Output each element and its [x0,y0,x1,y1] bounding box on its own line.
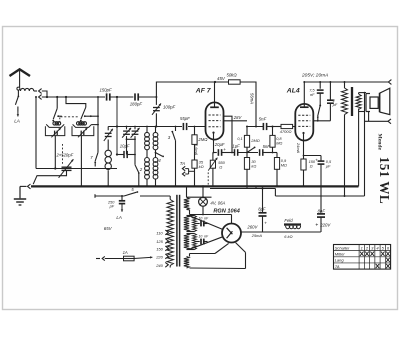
wire plate supply [304,81,388,83]
svg-text:8µF: 8µF [258,206,266,211]
switch S2 [135,165,140,188]
tap 220 [155,254,168,259]
gang coupling dashes [60,117,79,124]
label 35kΩ [199,160,204,170]
grid dashes AL4 [298,115,310,126]
svg-text:TA: TA [180,161,185,166]
label 10nF lower [198,234,209,238]
svg-text:pF: pF [109,204,115,208]
svg-text:150: 150 [156,246,163,251]
svg-text:MΩ: MΩ [276,140,282,145]
svg-text:240: 240 [155,263,163,268]
svg-text:AF 7: AF 7 [195,88,212,95]
svg-text:100pF: 100pF [163,104,176,109]
wire rect heater bottom [190,243,246,269]
wire left riser [35,96,37,169]
tap 240 [155,262,168,267]
svg-text:260V: 260V [246,225,258,230]
resistor 2MΩ [192,127,197,145]
label 20µF [214,142,225,147]
svg-text:1µF: 1µF [232,143,240,148]
svg-text:180pF: 180pF [130,102,143,107]
switch S5 mains [124,191,138,196]
coil pan left [45,122,64,136]
screen wire AL4 [313,81,330,122]
capacitor 10nF upper [195,221,208,227]
capacitor 250pF [119,196,125,212]
label 45V [217,76,226,81]
plug connector speaker [388,119,391,124]
label 30kΩ [251,159,256,169]
resistor 0,1MΩ [244,126,249,153]
wire [146,179,148,187]
wire switch bracket [65,96,86,107]
capacitor 7,5nF [317,82,324,106]
label 5nF b [263,144,271,149]
label 100pF [163,104,176,109]
mains transformer core [177,195,180,267]
label 56mA [250,93,255,104]
label 50kΩ [227,73,238,78]
label 2x520pF [56,153,74,158]
switch table [334,245,391,270]
svg-text:2MΩ: 2MΩ [197,137,208,142]
wire [146,150,148,158]
wire tuning line [36,168,117,170]
svg-text:kΩ: kΩ [199,164,204,169]
svg-text:+: + [264,222,267,227]
label 150pF [100,87,113,92]
coil antenna [105,150,111,169]
output transformer primary [342,82,348,115]
gang dashes pans [62,144,64,165]
wire [155,150,157,158]
resistor 50kΩ [229,80,241,84]
wire [138,96,157,98]
label 1µF [232,143,240,148]
coil grid 2a [153,132,158,149]
output transformer secondary [356,94,361,110]
switch S7 [94,152,98,166]
label 180pF [130,102,143,107]
svg-text:MΩ: MΩ [281,162,287,167]
cathode AL4 [302,132,304,156]
wire trimmer tie [127,139,136,165]
label 150Ω [309,159,316,169]
mains primary [167,196,173,268]
svg-text:6,6mA: 6,6mA [194,144,199,156]
wire ground stub [20,185,27,187]
svg-text:kΩ: kΩ [251,163,256,168]
field coil Feld [284,223,301,232]
wire top bus [42,91,105,98]
wire contact bus [92,96,99,152]
antenna [10,69,31,90]
svg-text:2: 2 [139,167,143,172]
capacitor 8µF b 220V [317,214,325,232]
resistor 35kΩ [192,160,197,188]
wire [155,127,157,133]
label 205V 20mA [301,73,328,79]
wire riser x117 [116,97,118,156]
svg-text:6 kΩ: 6 kΩ [284,234,292,239]
wire [238,152,258,154]
wire [222,152,235,154]
resistor 4700Ω [281,124,293,128]
label 28V [233,115,243,120]
svg-text:220: 220 [155,254,163,259]
label 7 [90,155,93,160]
label 5nF a [259,117,267,122]
wire switch3 column [174,127,176,188]
wire [146,127,148,133]
label 25mA [251,233,263,238]
trimmer b [131,127,140,141]
wire [263,152,277,154]
hum pot upper [187,216,197,232]
hum pot lower [187,234,197,250]
svg-text:4V, 06A: 4V, 06A [210,201,225,206]
wire anode rect lower [189,237,223,250]
svg-text:65V: 65V [104,226,113,231]
label 10µF [120,144,130,149]
wire lamp rail [190,210,232,215]
trimmer antenna [104,129,113,141]
label AF 7 [195,88,212,95]
label 550Ω [218,160,225,170]
winding 4V rect [184,186,212,209]
svg-text:45V: 45V [217,76,226,81]
label 4 [158,158,161,163]
chassis bus [31,185,359,187]
svg-text:AL4: AL4 [286,87,300,94]
svg-text:0,1: 0,1 [237,137,242,141]
svg-text:µF: µF [333,102,338,107]
svg-text:220V: 220V [319,222,331,227]
svg-text:TA: TA [335,264,340,269]
anode AL4 [300,81,309,107]
label 0,1MΩ [237,137,259,143]
wire secondary bottom [359,109,365,187]
label 6,6mA [194,144,199,156]
plug connector HT [388,80,391,85]
label 8µF b [318,209,326,214]
capacitor 2µF [327,81,334,121]
potentiometer 550Ω [208,153,217,188]
label 8µF a [258,206,266,211]
svg-text:LA: LA [14,119,20,124]
switch S4 [156,153,165,158]
switch LA [15,96,19,112]
svg-text:RGN 1064: RGN 1064 [213,208,240,214]
wire rect heater left [190,243,229,256]
variable capacitor 2x520pF [59,159,74,178]
label Feld [284,218,295,223]
svg-text:LA: LA [116,215,121,220]
svg-text:20µF: 20µF [214,142,225,147]
cathode AF7 [212,132,214,153]
tube AL4 [295,104,313,141]
wire grid line [108,126,205,128]
svg-text:28V: 28V [233,115,243,120]
coil pan right [72,122,94,136]
capacitor 10nF lower [195,239,208,245]
antenna coupling coil [21,88,38,91]
winding HT upper [184,216,189,232]
wire mains line [95,194,170,198]
label Mende [377,134,383,151]
capacitor 10µF [117,151,136,158]
label 2µF [332,98,338,107]
wire antenna drop [17,90,19,96]
switch wave band left [52,108,62,121]
label 0,8MΩ [276,136,282,146]
switch S1 row [247,147,256,153]
tube RGN1064 [222,215,241,243]
capacitor 5nF b [260,149,263,156]
label RGN 1064 [213,208,240,214]
svg-text:24mA: 24mA [296,142,301,154]
switch S3 [171,131,175,140]
tube AF7 [206,102,224,139]
wire anode rect upper [189,216,223,230]
label 0,5µF [326,159,332,169]
label 5 [131,187,134,192]
label 2MΩ [197,137,208,142]
svg-text:4700Ω: 4700Ω [280,129,292,134]
label 4700Ω [280,129,292,134]
label TA [180,161,185,166]
tap 150 [156,246,168,251]
capacitor 0,5µF [304,156,325,213]
coil grid 1b [145,158,150,180]
wire plate feed AF7 [156,81,228,97]
svg-text:55pF: 55pF [180,116,190,121]
svg-text:Feld: Feld [284,218,293,223]
wire to 56mA drop [240,82,257,128]
svg-text:2MΩ: 2MΩ [250,138,259,143]
capacitor 8µF a [259,189,268,233]
label 0,9MΩ [281,158,287,168]
wire rotor to chassis [33,170,66,184]
svg-text:2×520pF: 2×520pF [56,153,74,158]
label 4V 06A [210,201,225,206]
wire speaker lead [364,92,388,196]
svg-text:Mittel: Mittel [335,251,345,256]
svg-text:56mA: 56mA [250,93,255,104]
wire row B [213,152,217,154]
label 7,5nF [309,87,315,96]
label 260V [246,225,258,230]
tap 125 [156,239,168,244]
svg-text:125: 125 [156,239,163,244]
resistor 0,9MΩ [274,153,279,188]
svg-text:+: + [315,157,318,162]
wire B+ rail [275,195,364,197]
label 2 [139,167,143,172]
svg-text:205V; 20mA: 205V; 20mA [301,73,328,79]
trimmer in pan right [78,128,87,137]
wire pan2 down [80,136,82,188]
wire [194,144,196,160]
label 1A [123,250,128,255]
svg-text:5nF: 5nF [263,144,271,149]
svg-text:10µF: 10µF [120,144,130,149]
label 6kΩ [284,234,292,239]
wire heater rail [210,186,275,196]
winding 4V output [184,257,189,269]
label 24mA [296,142,301,154]
label LA [14,119,20,124]
trimmer a [122,127,131,141]
svg-text:nF: nF [310,92,315,97]
wire pan1 down [54,136,56,170]
coil grid 1a [145,132,150,149]
trimmer capacitor 100pF [152,97,161,128]
resistor 150Ω [301,155,306,188]
pot shaft dashes [207,172,209,186]
wire [154,179,156,187]
svg-text:+: + [315,222,318,228]
label +220V [315,222,331,228]
tap 110 [156,230,168,235]
wire detector line [247,126,295,128]
svg-text:110: 110 [156,230,163,235]
wire [110,96,134,98]
capacitor 5nF a [263,123,266,130]
label 3 [168,135,171,140]
fuse 1A [96,256,152,261]
capacitor 1µF [235,149,238,156]
label 250pF [107,201,115,209]
wire coil column [107,127,109,188]
svg-text:10: 10 [198,234,202,238]
wire secondary top [359,93,366,94]
dial lamp [199,185,208,215]
svg-text:150pF: 150pF [100,87,113,92]
trimmer in pan left [51,128,60,137]
label 65V [104,226,113,231]
switch S6 [317,105,321,121]
svg-text:Schalter: Schalter [335,245,350,250]
wire rectifier output [241,231,321,233]
label 151 WL [377,157,392,204]
capacitor 180pF [135,93,138,100]
svg-text:1A: 1A [123,250,128,255]
plug connector antenna 2 [39,95,42,100]
arrow to LA [17,112,19,117]
capacitor 55pF [183,123,186,130]
switch wave band right [80,107,98,121]
svg-text:8µF: 8µF [318,209,326,214]
speaker [366,88,390,114]
svg-text:µF: µF [326,163,331,168]
anode AF7 [210,82,219,107]
resistor 0,8MΩ [270,126,275,153]
plug connector chassis [28,184,31,189]
svg-text:25mA: 25mA [251,233,263,238]
label AL4 [286,87,300,94]
wire switch feed left [56,96,58,109]
capacitor 20µF [218,148,226,156]
coil grid 2b [153,158,158,180]
svg-text:Ω: Ω [219,164,222,169]
svg-text:1: 1 [361,245,363,250]
label 10nF upper [198,216,209,220]
svg-text:Ω: Ω [310,164,313,169]
label 55pF [180,116,190,121]
svg-text:5nF: 5nF [259,117,267,122]
plug connector TA [182,166,194,176]
label LA mains [116,215,121,220]
capacitor 150pF [107,93,110,100]
output transformer core [351,87,353,116]
grid dashes AF7 [209,115,221,127]
svg-text:50kΩ: 50kΩ [227,73,238,78]
winding HT lower [184,234,189,250]
screen wire AF7 [224,116,248,153]
svg-text:Mende: Mende [377,134,383,151]
plug connector antenna 1 [39,89,42,94]
ground [14,186,26,205]
wire primary down [344,115,346,197]
resistor 30kΩ [244,153,249,188]
svg-text:151 WL: 151 WL [377,157,392,204]
svg-text:Lang: Lang [335,258,345,263]
